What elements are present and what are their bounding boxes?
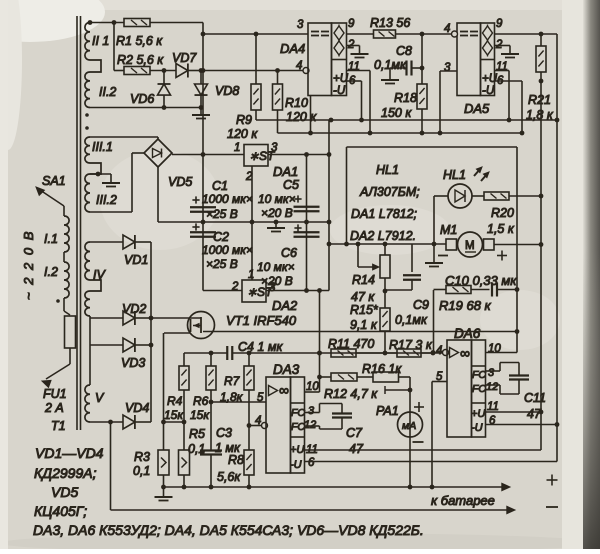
svg-text:4: 4 — [255, 415, 261, 427]
svg-text:к батарее: к батарее — [431, 493, 495, 508]
svg-text:DA6: DA6 — [454, 326, 481, 341]
svg-text:9: 9 — [348, 18, 355, 30]
svg-text:3: 3 — [271, 142, 278, 154]
svg-text:-U: -U — [471, 422, 483, 434]
svg-text:+U: +U — [482, 73, 498, 85]
svg-text:∞: ∞ — [460, 345, 470, 361]
svg-text:I.2: I.2 — [44, 265, 58, 279]
svg-text:IV: IV — [93, 268, 106, 282]
svg-text:VD6: VD6 — [130, 92, 154, 106]
svg-text:12: 12 — [304, 419, 316, 431]
svg-text:+U: +U — [333, 73, 349, 85]
svg-text:R5: R5 — [189, 427, 205, 441]
svg-text:DA3: DA3 — [273, 362, 300, 377]
svg-text:VD4: VD4 — [125, 401, 149, 415]
svg-text:4: 4 — [436, 345, 442, 357]
svg-text:R18: R18 — [394, 91, 417, 105]
svg-text:15к: 15к — [190, 408, 210, 422]
svg-text:1000 мк×: 1000 мк× — [202, 192, 253, 206]
svg-text:III.2: III.2 — [96, 193, 117, 207]
svg-text:6: 6 — [308, 457, 315, 469]
svg-text:1000 мк×: 1000 мк× — [202, 243, 253, 257]
svg-text:FU1: FU1 — [43, 387, 67, 401]
svg-text:R4: R4 — [167, 394, 183, 408]
svg-text:10 мк×: 10 мк× — [258, 192, 296, 206]
svg-text:I.1: I.1 — [44, 232, 58, 246]
svg-text:C5: C5 — [283, 178, 299, 192]
svg-text:FC: FC — [291, 407, 305, 419]
svg-text:VD1—VD4: VD1—VD4 — [35, 445, 104, 461]
svg-text:R6: R6 — [193, 394, 209, 408]
svg-text:FC: FC — [472, 369, 486, 381]
svg-text:47: 47 — [349, 442, 364, 456]
svg-text:II 1: II 1 — [92, 34, 109, 48]
svg-text:VD5: VD5 — [168, 175, 192, 189]
svg-text:VD3: VD3 — [121, 356, 145, 370]
svg-text:5,6к: 5,6к — [217, 470, 241, 484]
svg-text:HL1: HL1 — [443, 168, 466, 182]
svg-text:15к: 15к — [164, 408, 184, 422]
svg-text:C4 1 мк: C4 1 мк — [238, 340, 283, 354]
svg-text:VD5: VD5 — [51, 484, 78, 500]
svg-text:DA2 L7912.: DA2 L7912. — [350, 229, 416, 243]
svg-text:3: 3 — [444, 62, 451, 74]
svg-text:120 к: 120 к — [286, 110, 317, 124]
svg-text:9,1 к: 9,1 к — [350, 318, 378, 332]
svg-text:DA1 L7812;: DA1 L7812; — [351, 207, 418, 221]
svg-text:4: 4 — [444, 23, 450, 35]
svg-text:C7: C7 — [346, 426, 363, 440]
svg-text:×20 В: ×20 В — [261, 206, 293, 220]
svg-text:R12 4,7 к: R12 4,7 к — [324, 387, 378, 401]
svg-text:SA1: SA1 — [42, 174, 66, 188]
svg-text:DA2: DA2 — [272, 298, 298, 313]
svg-text:1,5 к: 1,5 к — [487, 222, 515, 236]
svg-text:PA1: PA1 — [376, 404, 399, 418]
svg-text:R9: R9 — [236, 113, 252, 127]
svg-text:+U: +U — [290, 444, 304, 456]
svg-text:C2: C2 — [213, 230, 229, 244]
svg-text:DA4: DA4 — [280, 41, 305, 56]
svg-text:R16 1к: R16 1к — [362, 362, 402, 376]
svg-text:9: 9 — [496, 18, 503, 30]
svg-text:C6: C6 — [281, 246, 297, 260]
svg-text:+U: +U — [471, 408, 485, 420]
svg-text:R10: R10 — [285, 96, 308, 110]
svg-text:C11: C11 — [524, 391, 546, 405]
svg-text:R20: R20 — [491, 206, 514, 220]
svg-text:C8: C8 — [396, 44, 412, 58]
svg-text:-U: -U — [333, 85, 346, 97]
svg-text:R13 56: R13 56 — [370, 16, 410, 30]
svg-text:III.1: III.1 — [92, 140, 113, 154]
svg-text:R7: R7 — [224, 374, 241, 388]
svg-text:M1: M1 — [440, 223, 457, 237]
svg-text:0,1: 0,1 — [133, 464, 150, 478]
svg-text:DA5: DA5 — [464, 101, 490, 116]
svg-text:C9: C9 — [413, 298, 429, 312]
svg-text:КЦ405Г;: КЦ405Г; — [34, 503, 87, 519]
svg-text:0,1мк: 0,1мк — [395, 313, 428, 327]
svg-text:C3: C3 — [216, 426, 232, 440]
svg-text:VD7: VD7 — [172, 51, 197, 65]
svg-text:АЛ307БМ;: АЛ307БМ; — [359, 185, 420, 199]
svg-text:R14: R14 — [352, 273, 375, 287]
svg-text:C10 0,33 мк: C10 0,33 мк — [445, 273, 517, 288]
svg-text:R15*: R15* — [350, 303, 379, 317]
svg-text:T1: T1 — [51, 419, 66, 433]
svg-text:R19 68 к: R19 68 к — [439, 298, 492, 313]
svg-text:HL1: HL1 — [376, 163, 399, 177]
svg-text:3: 3 — [297, 19, 304, 31]
svg-text:-U: -U — [482, 85, 495, 97]
svg-text:DA3, DA6 К553УД2; DA4, DA5: DA3, DA6 К553УД2; DA4, DA5 К554СА3; VD6—… — [33, 522, 424, 538]
svg-text:FC: FC — [472, 383, 486, 395]
svg-text:R8: R8 — [228, 453, 244, 467]
svg-text:R11 470: R11 470 — [328, 337, 374, 351]
svg-text:DA1: DA1 — [273, 164, 298, 179]
svg-text:10 мк×: 10 мк× — [257, 260, 295, 274]
svg-text:~ 2 2 0 В: ~ 2 2 0 В — [21, 230, 36, 300]
svg-text:2 А: 2 А — [44, 401, 64, 415]
svg-text:мА: мА — [402, 420, 416, 432]
svg-text:VD2: VD2 — [122, 302, 146, 316]
svg-text:II.2: II.2 — [99, 85, 116, 99]
svg-text:-U: -U — [290, 459, 302, 471]
svg-text:VD1: VD1 — [124, 253, 148, 267]
svg-text:×25 В: ×25 В — [206, 207, 238, 221]
svg-text:R2 5,6 к: R2 5,6 к — [117, 53, 164, 67]
svg-text:R1 5,6 к: R1 5,6 к — [116, 34, 163, 48]
svg-text:КД2999А;: КД2999А; — [34, 465, 97, 481]
svg-text:3: 3 — [308, 405, 315, 417]
svg-text:M: M — [465, 240, 475, 252]
svg-text:0,1мк: 0,1мк — [374, 58, 407, 72]
svg-text:3: 3 — [269, 282, 276, 294]
svg-text:1: 1 — [234, 142, 240, 154]
svg-text:C1: C1 — [212, 179, 228, 193]
svg-text:×25 В: ×25 В — [206, 257, 238, 271]
svg-text:150 к: 150 к — [381, 106, 412, 120]
svg-text:VD8: VD8 — [215, 84, 239, 98]
svg-text:∞: ∞ — [279, 382, 289, 398]
svg-text:47 к: 47 к — [351, 290, 375, 304]
svg-text:VT1 IRF540: VT1 IRF540 — [226, 313, 297, 328]
svg-text:R3: R3 — [134, 450, 150, 464]
svg-text:R21: R21 — [528, 93, 551, 107]
svg-text:R17 3 к: R17 3 к — [389, 338, 433, 352]
svg-text:4: 4 — [296, 60, 302, 72]
svg-text:120 к: 120 к — [227, 127, 258, 141]
svg-text:12: 12 — [486, 381, 498, 393]
svg-text:3: 3 — [488, 367, 495, 379]
